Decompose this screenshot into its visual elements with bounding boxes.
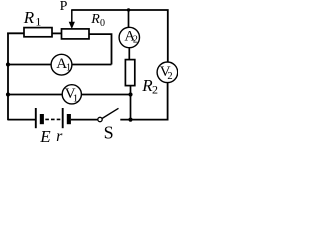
- node: junction left bus / V1 row: [6, 92, 10, 96]
- wire: R2 bottom lead down to bottom bus: [130, 86, 132, 120]
- wire: V1 row right segment to R2 branch: [82, 94, 131, 96]
- potentiometer R0 body: [62, 29, 90, 39]
- ammeter A1: [51, 54, 72, 75]
- battery cell 1 short thick plate: [40, 114, 44, 124]
- svg-text:R: R: [90, 12, 100, 27]
- wire: slider riser: [71, 10, 73, 24]
- svg-text:1: 1: [66, 62, 71, 73]
- voltmeter V1: [62, 85, 81, 104]
- battery cell 2 short thick plate: [67, 114, 71, 124]
- node: junction R2 lead / bottom bus: [128, 118, 132, 122]
- svg-text:2: 2: [133, 35, 138, 46]
- node: junction R2 lead / V1 row: [128, 92, 132, 96]
- svg-text:0: 0: [100, 18, 105, 29]
- wire: top bus from slider riser to top-right corner, down right side: [71, 10, 168, 62]
- wire: V2 bottom lead: [167, 83, 169, 121]
- svg-text:2: 2: [152, 83, 158, 97]
- svg-text:1: 1: [35, 15, 41, 29]
- svg-text:R: R: [23, 8, 35, 27]
- svg-text:r: r: [56, 128, 63, 145]
- battery cell 2 long plate: [62, 108, 64, 128]
- svg-text:1: 1: [73, 93, 79, 105]
- ammeter A2: [119, 27, 139, 47]
- wire: A2 to R2 lead: [128, 48, 130, 60]
- node: junction top bus / A2 branch: [127, 8, 130, 11]
- wire: dashed link between cells: [45, 118, 61, 120]
- battery cell 1 long plate: [35, 108, 37, 128]
- wire: left vertical bus: [7, 33, 9, 121]
- wire: A1 row left segment: [8, 64, 51, 66]
- wire: potentiometer right end over and down to A1 row: [89, 34, 112, 64]
- wire: left wire to R1: [7, 32, 24, 34]
- wire: bottom bus left segment to battery: [8, 119, 36, 121]
- node: junction left bus / A1 row: [6, 62, 10, 66]
- svg-text:2: 2: [167, 71, 172, 82]
- resistor R1: [24, 28, 52, 37]
- wire: V1 row left segment: [8, 94, 62, 96]
- wire: A2 top lead: [128, 10, 130, 27]
- slider arrowhead of potentiometer: [69, 22, 75, 29]
- voltmeter V2: [157, 62, 178, 83]
- wire: A1 row right segment: [72, 64, 112, 66]
- svg-text:S: S: [104, 122, 114, 142]
- resistor R2: [125, 60, 134, 86]
- svg-text:P: P: [60, 0, 68, 14]
- switch S lever: [102, 108, 118, 118]
- switch S pivot: [98, 117, 102, 121]
- wire: between R1 and potentiometer: [52, 32, 62, 34]
- wire: battery to switch: [71, 119, 98, 121]
- wire: bottom bus right of switch: [120, 119, 168, 121]
- svg-text:E: E: [39, 127, 51, 146]
